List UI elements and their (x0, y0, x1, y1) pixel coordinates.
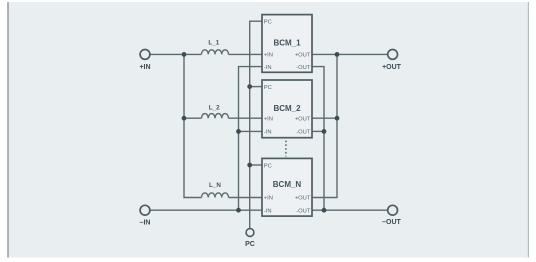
svg-text:+OUT: +OUT (295, 53, 311, 59)
terminal +OUT (388, 50, 398, 60)
svg-text:–OUT: –OUT (382, 219, 401, 226)
junction at +IN split (182, 52, 187, 57)
wire BCM_2 -IN stub (239, 130, 263, 132)
wire PC dotted link BCM_2 to BCM_N (285, 141, 287, 157)
svg-text:-OUT: -OUT (296, 65, 311, 71)
panel right border (528, 2, 529, 258)
junction -OUT bus / -OUT row (322, 208, 327, 213)
junction PC bus / BCM_N PC (247, 163, 252, 168)
svg-text:PC: PC (264, 85, 272, 91)
wire BCM_2 +OUT stub (312, 117, 337, 119)
inductor L_N (202, 193, 229, 198)
svg-text:-OUT: -OUT (296, 130, 311, 136)
svg-text:L_2: L_2 (209, 105, 220, 112)
inductor L_1 (202, 50, 229, 55)
junction +OUT bus / BCM_2 +OUT (335, 116, 340, 121)
junction -OUT bus / BCM_2 -OUT (322, 129, 327, 134)
wire PC bus vertical x=249.7 with BCM_1 PC stub (250, 21, 262, 228)
svg-text:BCM_1: BCM_1 (273, 38, 301, 47)
panel left border (7, 2, 9, 258)
junction -IN bus / -IN row (236, 208, 241, 213)
wire L_N to BCM_N +IN (229, 197, 263, 199)
svg-text:L_1: L_1 (208, 40, 219, 47)
terminal +IN (140, 50, 150, 60)
svg-text:PC: PC (245, 241, 255, 248)
wire -IN bus vertical x=238.5 with BCM_1 -IN stub (239, 67, 263, 211)
svg-text:+IN: +IN (264, 116, 273, 122)
wire -IN terminal to BCM_N -IN (150, 209, 262, 211)
wire +OUT bus vertical x=337 down to BCM_N +OUT (312, 54, 337, 197)
wire BCM_2 -OUT stub (312, 130, 324, 132)
terminal -OUT (388, 205, 398, 215)
inductor L_2 (202, 114, 229, 119)
svg-text:+IN: +IN (264, 53, 273, 59)
terminal PC (246, 229, 254, 237)
wire L_2 row from bus to inductor (184, 117, 202, 119)
svg-text:+OUT: +OUT (295, 116, 311, 122)
BCM module UN box (262, 158, 312, 216)
svg-text:-IN: -IN (264, 65, 272, 71)
svg-text:-IN: -IN (264, 130, 272, 136)
junction -IN bus / BCM_2 -IN (236, 129, 241, 134)
svg-text:-IN: -IN (264, 208, 272, 214)
wire +IN bus vertical x=184 (184, 54, 202, 197)
BCM module U1 box (262, 15, 312, 73)
svg-text:BCM_N: BCM_N (273, 180, 302, 189)
BCM module U2 box (262, 80, 312, 138)
wire L_2 to BCM_2 +IN (229, 117, 263, 119)
junction PC bus / BCM_2 PC (247, 84, 252, 89)
svg-text:PC: PC (264, 163, 272, 169)
junction +OUT bus / +OUT row (335, 52, 340, 57)
junction at L_2 row (182, 116, 187, 121)
svg-text:L_N: L_N (209, 182, 221, 189)
svg-text:+IN: +IN (264, 196, 273, 202)
svg-text:PC: PC (264, 20, 272, 26)
svg-text:+OUT: +OUT (295, 196, 311, 202)
terminal -IN (140, 205, 150, 215)
wire BCM_N -OUT to -OUT terminal (312, 209, 388, 211)
svg-text:–IN: –IN (140, 220, 151, 227)
wire BCM_1 +OUT to +OUT terminal (312, 53, 388, 55)
wire L_1 to BCM_1 +IN (229, 53, 263, 55)
svg-text:-OUT: -OUT (296, 208, 311, 214)
svg-text:+OUT: +OUT (382, 64, 402, 71)
wire -OUT bus vertical x=324 with BCM_1 -OUT stub (312, 67, 324, 211)
wire BCM_N PC stub (250, 164, 262, 166)
svg-text:+IN: +IN (139, 64, 150, 71)
svg-text:BCM_2: BCM_2 (273, 104, 301, 113)
wire +IN terminal to L_1 (150, 53, 202, 55)
wire BCM_2 PC stub (250, 86, 262, 88)
